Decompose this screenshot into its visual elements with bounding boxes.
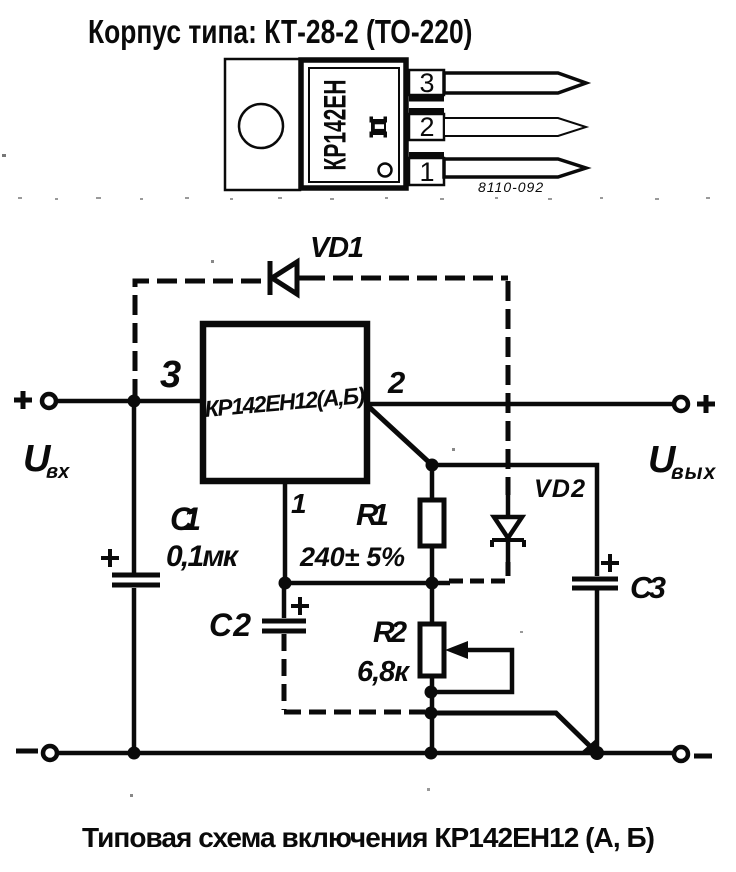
svg-text:вх: вх bbox=[46, 461, 70, 483]
svg-text:2: 2 bbox=[387, 365, 405, 400]
svg-text:вых: вых bbox=[671, 461, 717, 484]
svg-text:1: 1 bbox=[291, 488, 307, 519]
svg-text:R1: R1 bbox=[356, 497, 389, 532]
svg-text:VD2: VD2 bbox=[534, 475, 585, 503]
svg-text:Типовая схема включения КР142Е: Типовая схема включения КР142ЕН12 (А, Б) bbox=[82, 822, 655, 853]
svg-text:2: 2 bbox=[419, 112, 434, 142]
svg-text:3: 3 bbox=[160, 354, 181, 396]
svg-text:3: 3 bbox=[419, 68, 434, 98]
svg-text:6,8к: 6,8к bbox=[357, 656, 410, 688]
svg-text:R2: R2 bbox=[373, 616, 407, 649]
svg-text:240± 5%: 240± 5% bbox=[299, 542, 405, 572]
svg-text:VD1: VD1 bbox=[310, 232, 364, 264]
svg-text:1: 1 bbox=[419, 157, 434, 187]
svg-text:C1: C1 bbox=[170, 501, 201, 537]
svg-text:C3: C3 bbox=[630, 570, 666, 605]
svg-text:Корпус типа: КТ-28-2 (ТО-220): Корпус типа: КТ-28-2 (ТО-220) bbox=[88, 14, 472, 50]
svg-text:8110-092: 8110-092 bbox=[478, 179, 544, 195]
svg-text:0,1мк: 0,1мк bbox=[166, 540, 240, 573]
svg-text:КР142ЕН: КР142ЕН bbox=[317, 80, 352, 171]
svg-text:C2: C2 bbox=[209, 607, 251, 643]
